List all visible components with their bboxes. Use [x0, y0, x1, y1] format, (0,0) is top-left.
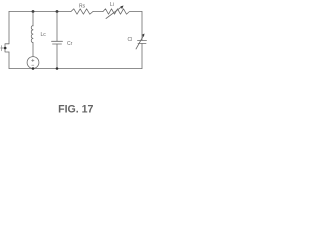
wire coil branch lower: [32, 43, 34, 57]
svg-text:FIG. 17: FIG. 17: [58, 104, 93, 116]
arrow of variable capacitor Cl: [136, 36, 144, 50]
svg-text:Cr: Cr: [67, 41, 73, 47]
capacitor Cl (variable): [138, 40, 147, 42]
wire top rail right segment: [130, 11, 142, 13]
svg-text:Lc: Lc: [41, 32, 47, 38]
arrow of variable inductor Li: [106, 7, 122, 19]
wire capacitor branch lower: [56, 44, 58, 69]
source V1 circle: [27, 57, 39, 69]
node source-rail junction: [32, 67, 35, 70]
source V1 polarity marks: [32, 59, 34, 61]
gate bar of Q1: [0, 46, 2, 51]
wire bottom rail: [9, 68, 142, 70]
wire right side lower: [141, 44, 143, 69]
wire left side upper: [8, 12, 10, 44]
svg-text:Cl: Cl: [128, 37, 133, 43]
node B top junction: [56, 10, 59, 13]
resistor Rs: [71, 9, 93, 14]
node gate junction dot: [4, 47, 7, 50]
transistor Q1: [5, 44, 9, 52]
capacitor Cr: [52, 40, 63, 42]
gate lead of Q1: [1, 47, 5, 49]
inductor Lc: [31, 26, 33, 43]
wire left side lower: [8, 52, 10, 69]
wire right side upper: [141, 12, 143, 41]
wire capacitor branch upper: [56, 12, 58, 42]
wire top rail left segment: [9, 11, 71, 13]
svg-text:Li: Li: [110, 2, 114, 8]
node A top junction: [32, 10, 35, 13]
inductor Li (variable): [103, 9, 130, 14]
wire coil branch upper: [32, 12, 34, 27]
node capacitor-rail junction: [56, 67, 59, 70]
wire top rail mid segment: [93, 11, 103, 13]
svg-text:Rs: Rs: [79, 4, 86, 10]
